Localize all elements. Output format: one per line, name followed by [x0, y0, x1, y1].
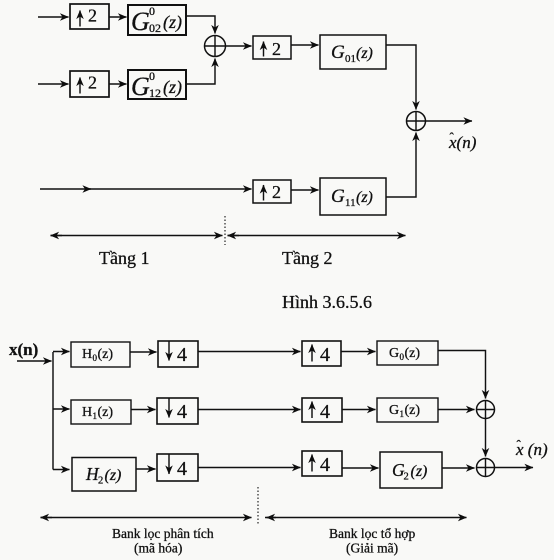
svg-text:G: G: [131, 7, 150, 36]
svg-text:4: 4: [177, 458, 187, 480]
svg-text:Bank lọc tổ hợp: Bank lọc tổ hợp: [329, 526, 416, 541]
adder S2: [407, 112, 426, 131]
dimension arrow Tang 1: [51, 235, 223, 237]
svg-text:Tầng 2: Tầng 2: [282, 248, 332, 268]
downsampler D1 box (down 4): [158, 341, 198, 367]
downsampler D3 box (down 4): [157, 454, 198, 481]
svg-text:G: G: [389, 346, 399, 361]
svg-text:1: 1: [400, 409, 405, 419]
adder S1: [205, 36, 226, 57]
svg-text:G: G: [389, 403, 399, 418]
svg-text:(z): (z): [163, 77, 182, 98]
svg-text:(z): (z): [98, 347, 114, 362]
wire U1 to G02: [109, 16, 127, 18]
dotted separator top: [224, 216, 226, 245]
upsampler U4 box (up 2): [253, 180, 291, 203]
svg-text:2: 2: [88, 6, 97, 26]
wire continuation to U4: [89, 188, 252, 190]
dimension arrow Bank loc to hop: [267, 517, 277, 519]
label G01(z): [331, 42, 373, 65]
upsampler U2 box (up 2): [70, 71, 109, 97]
adder T2: [477, 459, 495, 477]
svg-text:ˆ: ˆ: [450, 130, 455, 145]
svg-text:(z): (z): [411, 463, 428, 480]
up-arrow glyph in U3: [263, 42, 265, 57]
svg-text:(z): (z): [98, 405, 114, 420]
down-arrow glyph in D3: [168, 455, 170, 475]
down-arrow glyph in D1: [168, 342, 170, 361]
svg-text:G: G: [331, 186, 345, 207]
wire U7 to G2: [342, 467, 379, 469]
dimension arrow Tang 2: [228, 235, 240, 237]
up-arrow glyph in U4: [263, 185, 265, 201]
svg-text:4: 4: [320, 454, 330, 476]
svg-text:(z): (z): [405, 346, 421, 361]
wire G12 to adder S1: [186, 59, 215, 85]
svg-text:4: 4: [320, 344, 330, 366]
svg-text:(z): (z): [356, 189, 373, 206]
label H1(z): [82, 405, 113, 421]
filter G02 box: [128, 5, 186, 35]
downsampler D2 box (down 4): [157, 398, 198, 424]
wire G02 to adder S1: [186, 16, 215, 34]
svg-text:x(n): x(n): [9, 340, 38, 359]
wire branch to H2: [53, 469, 70, 471]
upsampler U6 box (up 4): [302, 398, 342, 422]
svg-text:G: G: [331, 42, 345, 63]
wire H0 to D1: [130, 351, 157, 353]
label H0(z): [82, 347, 113, 363]
wire S2 output: [426, 120, 473, 122]
svg-text:H: H: [82, 405, 92, 420]
svg-text:4: 4: [177, 401, 187, 423]
svg-text:11: 11: [345, 197, 356, 209]
up-arrow glyph in U7: [311, 455, 313, 472]
svg-text:Hình 3.6.5.6: Hình 3.6.5.6: [282, 292, 372, 312]
svg-text:0: 0: [149, 69, 155, 83]
filter H0 box: [71, 342, 130, 367]
filter H1 box: [71, 400, 131, 424]
svg-text:4: 4: [320, 401, 330, 423]
up-arrow glyph in U2: [79, 78, 81, 94]
wire input arrow to upsampler U2: [38, 83, 69, 85]
adder T1: [477, 401, 495, 419]
dotted separator bottom: [257, 487, 259, 524]
dimension arrow Bank loc phan tich: [41, 517, 53, 519]
label G2(z): [392, 460, 427, 483]
svg-text:Tầng 1: Tầng 1: [99, 248, 149, 268]
svg-text:Bank lọc phân tích: Bank lọc phân tích: [112, 526, 214, 541]
wire G11 to adder S2: [386, 133, 416, 198]
wire U4 to G11: [291, 189, 319, 191]
upsampler U3 box (up 2): [253, 36, 291, 59]
wire S1 to upsampler U3: [226, 45, 252, 47]
wire U2 to G12: [109, 83, 127, 85]
wire long input line third branch: [40, 188, 91, 190]
label G02(z): [131, 4, 182, 36]
svg-text:01: 01: [345, 53, 356, 65]
up-arrow glyph in U6: [311, 402, 313, 419]
label G12(z): [131, 69, 182, 101]
svg-text:4: 4: [177, 344, 187, 366]
wire G2 to adder T2: [442, 467, 475, 469]
svg-text:0: 0: [149, 4, 155, 18]
svg-text:(z): (z): [405, 403, 421, 418]
filter G2 box: [380, 452, 442, 488]
down-arrow glyph in D2: [168, 399, 170, 418]
svg-text:12: 12: [149, 86, 161, 100]
wire G0 to adder T1: [438, 351, 486, 399]
wire U5 to G0: [341, 351, 376, 353]
svg-text:02: 02: [149, 21, 161, 35]
upsampler U1 box (up 2): [70, 4, 109, 29]
label G1(z): [389, 403, 420, 419]
wire H1 to D2: [131, 409, 156, 411]
wire H2 to D3: [136, 468, 156, 470]
label G0(z): [389, 346, 420, 362]
svg-text:(z): (z): [356, 45, 373, 62]
wire U3 to G01: [291, 44, 319, 46]
svg-text:(mã hóa): (mã hóa): [134, 541, 182, 556]
svg-text:(z): (z): [105, 467, 122, 484]
wire D3 to U7: [198, 467, 301, 469]
filter H2 box: [72, 458, 136, 492]
svg-text:2: 2: [272, 182, 281, 202]
svg-text:ˆ: ˆ: [517, 437, 522, 452]
filter G0 box: [377, 341, 438, 365]
filter G11 box: [320, 178, 386, 215]
label G11(z): [331, 186, 373, 209]
svg-text:(Giải mã): (Giải mã): [346, 541, 398, 556]
up-arrow glyph in U5: [311, 345, 313, 362]
filter G01 box: [320, 35, 386, 69]
filter G1 box: [377, 398, 438, 422]
svg-text:1: 1: [93, 411, 98, 421]
wire x(n) input arrow: [17, 360, 52, 362]
wire G1 to adder T1: [438, 409, 475, 411]
wire T2 output: [495, 467, 534, 469]
wire G01 to adder S2: [386, 45, 416, 110]
label H2(z): [85, 464, 121, 487]
svg-text:2: 2: [98, 476, 103, 487]
upsampler U7 box (up 4): [302, 451, 342, 476]
upsampler U5 box (up 4): [302, 341, 341, 366]
svg-text:(z): (z): [163, 12, 182, 33]
svg-text:2: 2: [272, 39, 281, 59]
wire U6 to G1: [342, 409, 376, 411]
wire branch to H0: [53, 351, 70, 353]
filter G12 box: [128, 70, 186, 99]
svg-text:G: G: [131, 72, 150, 101]
wire input arrow to upsampler U1: [38, 16, 69, 18]
wire branch vertical: [52, 352, 54, 470]
svg-text:2: 2: [404, 472, 409, 483]
svg-text:H: H: [82, 347, 92, 362]
wire branch to H1: [53, 408, 70, 410]
wire T1 to T2: [485, 419, 487, 457]
wire D1 to U5: [198, 351, 301, 353]
up-arrow glyph in U1: [79, 11, 81, 27]
svg-text:2: 2: [88, 73, 97, 93]
wire D2 to U6: [198, 409, 301, 411]
